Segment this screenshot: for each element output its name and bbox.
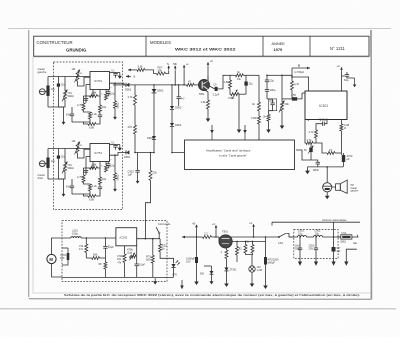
wire to speaker — [332, 186, 336, 188]
wire — [324, 121, 327, 124]
wire motor to coil — [52, 238, 71, 255]
resistor R104 — [306, 142, 313, 145]
schematic frame border — [28, 30, 30, 297]
potentiometer volume IC701 — [64, 91, 67, 100]
ground motor box — [154, 278, 156, 282]
ground near IC701 supply — [119, 73, 121, 77]
wire mute branch — [137, 153, 139, 171]
svg-text:+L: +L — [186, 62, 190, 66]
resistor R904 — [157, 72, 166, 75]
wire — [114, 108, 116, 114]
svg-text:2,2k: 2,2k — [92, 184, 98, 188]
wire — [85, 238, 87, 244]
wiper arrow R207 — [130, 253, 136, 261]
svg-text:(1w): (1w) — [127, 251, 132, 255]
svg-text:0,5A: 0,5A — [278, 242, 283, 245]
diode D903 — [170, 106, 174, 109]
wire — [85, 96, 87, 103]
svg-text:63n: 63n — [66, 185, 71, 189]
wire — [172, 84, 184, 86]
signal source jack IC751-in — [39, 161, 45, 167]
op-amp power IC101 — [305, 91, 347, 120]
wire — [136, 246, 138, 264]
wire — [346, 72, 348, 75]
resistor R905 — [134, 95, 137, 105]
inductor L901 — [298, 236, 307, 238]
signal source jack IC701-in — [39, 89, 45, 95]
wire — [310, 152, 312, 160]
diode D905 — [152, 136, 156, 139]
supply arrow NB — [174, 66, 176, 70]
svg-text:+C: +C — [210, 59, 214, 63]
svg-text:3,3k: 3,3k — [138, 65, 144, 69]
wire — [172, 140, 183, 153]
svg-text:GRUNDIG: GRUNDIG — [66, 48, 87, 53]
capacitor C101 — [345, 74, 349, 76]
svg-text:IC201: IC201 — [120, 236, 128, 240]
capacitor input elco IC751 — [46, 158, 49, 168]
resistor emitter IC701 — [89, 112, 92, 119]
svg-text:MODELES: MODELES — [150, 40, 171, 45]
resistor R201 — [85, 244, 88, 253]
wire — [243, 74, 259, 76]
svg-text:56kΩ: 56kΩ — [117, 102, 120, 108]
resistor output IC701 — [114, 101, 117, 109]
svg-text:Commande: Commande — [158, 223, 171, 226]
wire — [123, 84, 127, 86]
wire — [315, 250, 317, 256]
svg-text:50kΩ: 50kΩ — [67, 94, 73, 98]
wire — [90, 91, 94, 96]
svg-text:Antenne automatique: Antenne automatique — [322, 218, 347, 222]
capacitor C704 IC751 — [106, 163, 110, 165]
svg-text:470: 470 — [128, 125, 133, 129]
wire — [85, 253, 87, 259]
wire — [299, 250, 301, 256]
wire — [178, 99, 180, 107]
resistor divider IC701 — [99, 105, 102, 113]
wire input vertical — [47, 149, 49, 180]
wire — [99, 113, 101, 116]
svg-text:µF: µF — [347, 157, 351, 161]
svg-text:900: 900 — [200, 273, 205, 276]
wire — [267, 74, 282, 76]
svg-text:Si901: Si901 — [340, 241, 347, 243]
wire — [245, 241, 247, 244]
resistor R952 — [149, 170, 152, 180]
wire IC supply pin — [110, 72, 116, 74]
wire — [84, 122, 89, 124]
wire amp box to pot — [296, 150, 311, 160]
svg-text:100µ: 100µ — [270, 88, 276, 92]
arrow B into IC701 — [126, 75, 131, 77]
wire — [226, 259, 228, 268]
capacitor C102 — [322, 122, 324, 126]
svg-text:10µF: 10µF — [108, 245, 114, 249]
potentiometer R207 — [130, 255, 137, 258]
junction — [105, 237, 107, 239]
resistor R803 — [236, 247, 239, 256]
svg-text:1µF: 1µF — [128, 173, 133, 177]
svg-text:1µF: 1µF — [60, 256, 65, 260]
svg-text:IC101: IC101 — [319, 104, 328, 108]
junction NB — [174, 84, 176, 86]
svg-text:gauche: gauche — [38, 70, 47, 74]
ground under IC101 — [307, 167, 309, 171]
junction — [215, 236, 217, 238]
ground arrow above amp box 1 — [211, 125, 213, 133]
junction — [134, 152, 136, 154]
wire — [152, 263, 154, 277]
junction +L — [183, 84, 185, 86]
capacitor ceramic IC701 — [57, 84, 60, 87]
junction 56k right — [114, 154, 116, 156]
wire — [311, 160, 318, 162]
ground C801 — [196, 278, 198, 282]
junction — [253, 236, 255, 238]
inductor L401 — [292, 97, 297, 100]
wire — [57, 77, 59, 84]
capacitor coupling low IC751 — [70, 185, 74, 187]
wire — [251, 272, 253, 280]
svg-text:470k: 470k — [251, 116, 257, 120]
svg-text:D951: D951 — [124, 155, 131, 159]
junction — [266, 75, 268, 77]
svg-text:25V: 25V — [309, 247, 314, 251]
wire jack stub — [45, 91, 48, 93]
wire — [258, 124, 260, 140]
resistor R401 — [235, 74, 243, 77]
ground lamp — [251, 280, 253, 284]
svg-text:10µ: 10µ — [51, 89, 56, 91]
wire B branch to IC101 — [292, 68, 309, 91]
svg-text:B: B — [134, 75, 136, 79]
pin marks IC101 — [307, 120, 309, 122]
wire — [83, 168, 85, 175]
op-amp IC201 — [116, 228, 137, 246]
ground tone1 — [238, 126, 240, 130]
wire — [178, 85, 180, 97]
svg-text:4,7k: 4,7k — [309, 130, 315, 134]
wire — [236, 255, 238, 262]
wire to antenna box — [287, 234, 295, 238]
arrow B to supply — [292, 67, 310, 69]
wire — [183, 69, 185, 85]
wire — [210, 86, 215, 89]
wire — [136, 266, 138, 277]
wire +C bottom — [215, 230, 217, 238]
svg-text:droit: droit — [38, 176, 43, 180]
wire pin2 feedback — [85, 157, 87, 169]
inductor L201 — [71, 237, 81, 238]
svg-text:Ω: Ω — [344, 126, 346, 130]
svg-text:560: 560 — [93, 253, 98, 257]
wire — [343, 162, 345, 167]
resistor load IC751 — [105, 165, 108, 172]
wire motor bottom rail — [62, 276, 174, 278]
svg-text:Schéma de la partie B.F. du ré: Schéma de la partie B.F. du récepteur WK… — [64, 293, 360, 297]
svg-text:D903: D903 — [175, 106, 182, 110]
svg-text:10V: 10V — [186, 260, 191, 264]
wire — [245, 86, 247, 95]
svg-text:N° 1211: N° 1211 — [330, 46, 346, 51]
capacitor C103 4700uF — [342, 155, 345, 162]
wire — [84, 111, 91, 113]
svg-text:ZT301: ZT301 — [230, 269, 238, 272]
ground arrow above amp box 2 — [244, 125, 246, 133]
capacitor C203 — [135, 263, 139, 265]
junction C906 — [178, 84, 180, 86]
wire — [313, 142, 316, 144]
wire — [307, 236, 314, 238]
svg-text:100µ: 100µ — [72, 232, 78, 236]
supply arrow +A bottom — [253, 225, 255, 229]
wire +C to T901 — [207, 67, 209, 82]
wire — [48, 159, 58, 179]
resistor lower IC701 — [88, 123, 96, 126]
dashed enclosure antenna filter — [294, 230, 338, 259]
capacitor C404 — [265, 89, 269, 91]
wire — [266, 75, 268, 80]
resistor R906 — [134, 125, 137, 134]
svg-text:10µ: 10µ — [51, 161, 56, 163]
svg-text:600µF: 600µF — [268, 261, 276, 265]
pin marks IC701 — [92, 90, 94, 92]
transistor T801 power — [219, 235, 232, 248]
wire to IC pin1 — [78, 77, 91, 86]
LED D201 — [171, 264, 175, 268]
wire — [48, 87, 58, 107]
wire — [62, 247, 68, 249]
wire — [64, 77, 66, 92]
wire — [207, 109, 209, 115]
svg-text:T901: T901 — [199, 92, 205, 96]
wire IC201 out — [137, 238, 160, 240]
capacitor ceramic IC751 — [57, 156, 60, 159]
wire — [212, 236, 220, 238]
wire jack stub — [45, 163, 48, 165]
svg-text:1,5k: 1,5k — [201, 100, 207, 104]
resistor R205 — [159, 244, 162, 252]
wire into IC101 — [302, 92, 305, 94]
wire — [116, 72, 120, 74]
wire — [317, 164, 319, 167]
resistor bias IC751 — [82, 175, 85, 183]
wire preamp left out — [113, 84, 126, 86]
resistor feedback IC701 — [90, 95, 98, 98]
wire input vertical — [47, 77, 49, 108]
wire — [84, 167, 90, 169]
wire — [204, 265, 212, 267]
wire — [100, 257, 106, 259]
ground D801 — [211, 278, 213, 282]
wire — [282, 75, 292, 81]
supply arrow +C bottom — [215, 226, 217, 230]
svg-text:22n: 22n — [61, 156, 66, 159]
wire — [268, 111, 270, 115]
svg-text:gauche: gauche — [351, 190, 360, 193]
svg-text:M: M — [49, 257, 53, 262]
svg-text:1,5k: 1,5k — [224, 80, 230, 84]
resistor R903 — [137, 68, 145, 71]
diode D801 — [210, 271, 214, 274]
svg-text:2,2k: 2,2k — [92, 112, 98, 116]
potentiometer R403 volume — [231, 93, 239, 96]
svg-text:1979: 1979 — [274, 47, 283, 52]
wire — [67, 248, 69, 253]
wire — [98, 163, 101, 168]
wire — [58, 172, 65, 179]
switch S201 — [158, 232, 160, 234]
wire — [114, 83, 116, 101]
ground C952 — [137, 178, 139, 181]
wire — [104, 258, 106, 262]
potentiometer volume IC751 — [64, 163, 67, 172]
junction — [196, 236, 198, 238]
wire — [57, 149, 59, 156]
ground IC751 output leg — [114, 186, 116, 189]
junction — [171, 84, 173, 86]
wire antenna stub — [271, 222, 273, 225]
ground ZD801 — [226, 280, 228, 284]
junction — [236, 241, 238, 243]
capacitor feedback IC751 — [84, 170, 88, 172]
wire — [84, 191, 91, 194]
resistor divider IC751 — [99, 177, 102, 185]
capacitor C202 — [103, 246, 107, 248]
wire — [194, 84, 198, 86]
junction — [326, 166, 328, 168]
wire — [153, 93, 155, 136]
svg-text:10k: 10k — [102, 105, 107, 109]
wire — [347, 76, 355, 78]
arrow rail left — [182, 236, 187, 238]
resistor lower IC751 — [88, 195, 96, 198]
wire — [265, 265, 267, 283]
wire amp box top feeds — [211, 132, 213, 140]
supply arrow +L — [183, 65, 185, 69]
junction 56k — [114, 82, 116, 84]
wire — [105, 91, 107, 93]
capacitor C402 block — [244, 82, 247, 86]
resistor R908 — [207, 100, 210, 109]
svg-text:2µF: 2µF — [337, 251, 342, 253]
resistor R404 — [258, 102, 261, 111]
ground arrow right of C101 — [354, 78, 356, 85]
wire T801 emitter rail — [232, 240, 265, 242]
resistor R402 — [229, 80, 232, 89]
capacitor C903 — [215, 87, 218, 91]
wire — [184, 84, 186, 86]
wire — [104, 269, 106, 277]
wire — [98, 91, 101, 96]
capacitor supply IC701 — [113, 72, 117, 74]
wire — [265, 237, 267, 257]
ground tone3 — [281, 122, 283, 126]
wire — [305, 120, 306, 144]
wire — [134, 105, 136, 125]
wire — [297, 93, 302, 99]
wire — [72, 188, 84, 194]
wire — [159, 239, 161, 244]
fuse Si901 0,5A — [341, 235, 352, 239]
wire — [226, 271, 228, 280]
wire — [226, 74, 235, 76]
wiper arrow R105 — [308, 146, 314, 154]
junction node muting — [153, 84, 155, 86]
junction link wire — [145, 238, 147, 240]
wire — [153, 85, 155, 89]
resistor R202 — [92, 257, 100, 260]
wire — [71, 179, 73, 186]
capacitor C403 — [265, 79, 269, 81]
svg-text:CONSTRUCTEUR: CONSTRUCTEUR — [37, 40, 73, 45]
wire — [266, 91, 268, 99]
wire — [62, 260, 68, 265]
wire — [238, 94, 240, 126]
wire — [99, 168, 101, 177]
wire chassis L — [346, 249, 357, 262]
ground arrow antenna 3 — [333, 259, 335, 263]
wiper arrow R403 — [232, 90, 238, 99]
wire switch to node — [158, 234, 160, 239]
svg-text:à celui “Canal gauche”: à celui “Canal gauche” — [219, 153, 247, 157]
wire — [310, 143, 312, 148]
svg-text:2,2µF: 2,2µF — [213, 93, 220, 96]
ground IC751 input leg — [63, 191, 65, 194]
svg-text:4,7/40µF: 4,7/40µF — [294, 71, 304, 74]
wire — [171, 127, 173, 140]
svg-text:560: 560 — [146, 258, 151, 262]
shielded capacitor C405 — [269, 99, 277, 111]
resistor output IC751 — [114, 173, 117, 181]
svg-text:63n: 63n — [66, 113, 71, 117]
svg-text:N: N — [167, 62, 169, 66]
wire — [226, 248, 228, 250]
wire — [342, 75, 345, 77]
svg-text:22µ: 22µ — [270, 79, 275, 83]
svg-text:82: 82 — [239, 247, 242, 251]
capacitor C405 inner — [270, 102, 274, 104]
resistor R408 — [291, 81, 294, 90]
wire — [315, 237, 317, 248]
wiper arrow balance IC751 — [75, 142, 81, 155]
wire — [145, 70, 157, 74]
junction — [291, 76, 293, 78]
wire — [229, 89, 232, 95]
capacitor C704 IC701 — [106, 91, 110, 93]
wire — [174, 70, 176, 85]
wire supply rail — [187, 236, 203, 238]
lamp La801 — [249, 266, 255, 272]
ground tone2 — [268, 126, 270, 130]
wire — [253, 229, 255, 238]
wire — [86, 257, 91, 259]
wire — [153, 140, 155, 153]
wire link down — [150, 153, 152, 171]
junction — [265, 236, 267, 238]
resistor R405 — [258, 116, 261, 124]
wire — [166, 70, 169, 73]
wire — [115, 147, 117, 150]
wiper arrow IC701 — [62, 90, 68, 102]
wire — [196, 263, 198, 278]
ground IC701 output leg — [114, 114, 116, 117]
capacitor C903a — [298, 247, 302, 249]
svg-text:1W: 1W — [117, 257, 121, 261]
motor M — [47, 254, 56, 263]
potentiometer R407 — [281, 102, 284, 111]
